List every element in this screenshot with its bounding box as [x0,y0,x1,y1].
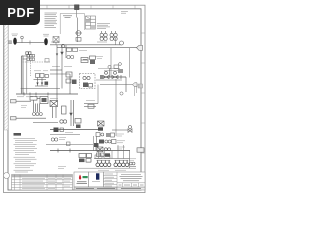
relief header pipe [100,76,126,78]
drop pipe x93.5 [93,136,95,151]
separator drum cluster [50,45,77,102]
PDF badge [0,0,40,25]
tag box on top frame [75,5,80,18]
relief instrument boxes [108,63,123,77]
fitting ticks on y94 [24,93,48,96]
dark pump cluster on y129.5 [54,128,64,133]
NOTES header [14,133,22,136]
logo box [74,172,89,187]
package unit dashed box [80,74,96,89]
drain line y144.5 [46,144,93,146]
pipe band y94 [16,93,78,95]
instrument pair mid [61,44,77,58]
mini stream table [86,16,96,29]
GAS COOLER area box [60,14,84,35]
PSV pair on column top [26,52,31,58]
underline of bubble rows [78,167,136,169]
pipe band y88 [21,88,60,90]
right vertical cluster boxes [96,121,116,157]
flare line turn-down [129,151,131,169]
equipment name labels under bubbles [58,167,126,171]
cluster left-center boxes [50,100,81,128]
doc number strip [74,187,117,190]
valve V2 tag text [43,34,49,36]
hatched battery-limit strip [4,9,8,130]
arrow label on header [51,41,107,43]
bottom labels under y94 [17,96,40,98]
riser to relief zone [97,85,99,104]
gate valve V1 (filled) [13,38,17,45]
grid reference ticks right [141,33,145,153]
inline instrument bubble on header [120,41,124,45]
instrument cluster on column [22,55,34,61]
gate valve V2 (filled) [44,38,48,45]
relief subheader y158.5 [94,158,129,160]
revision table [12,175,73,191]
pipe y129.5 [50,129,98,131]
margin punch circle [4,173,10,179]
legend text block top left [45,13,58,27]
stamp caption [92,181,100,183]
bubble under relief line [120,92,123,95]
cluster text tags right [117,134,137,161]
grid reference ticks top [25,5,135,9]
offsheet tag left A [11,100,32,103]
offsheet connector flag right [137,45,143,50]
company logo flame [79,175,81,180]
tag texts right of circles [59,138,66,140]
cooler drop pipe [75,18,82,43]
cluster risers [99,145,124,159]
relief header turn-down [125,77,127,92]
dashed signal line [22,58,50,76]
compressor train B bubbles [114,161,129,167]
company name text [77,182,88,184]
small box on dashed line [45,59,49,63]
relief line arrow to frame [100,84,133,86]
cooler E-100 cluster [53,37,59,46]
line-start tag on strip [8,41,11,44]
faint marks left-mid [21,106,27,108]
scattered tag texts center [79,51,103,59]
main header pipe [50,44,122,46]
offsheet tag left B [11,117,47,120]
cluster tag texts [34,70,48,72]
valve V1 tag text [12,34,19,36]
GAS COOLER label [63,16,72,18]
inline box on drain line [67,142,71,146]
inner frame [8,9,141,190]
pipe y122.5 [33,122,58,124]
notes text lines [14,138,38,172]
bottom-left cluster tags [51,138,58,141]
spare bubbles right [129,162,136,166]
legend text right of badge [97,24,110,29]
drop pipe from header [61,45,70,94]
area label top right [121,12,128,14]
flag on right frame [138,84,143,88]
instrument bubbles row mid-left [33,113,43,116]
arrow pipe to right mid [84,104,98,109]
flare header fittings [58,144,96,153]
tag text above box-left [50,98,95,100]
line to offsheet flag right [137,148,144,152]
blue approval stamp [96,173,99,179]
instrument boxes above title block [95,155,110,158]
HP flare KO cluster [79,154,92,163]
scrubber column V-100 [21,56,27,94]
spare riser x129.7 [129,48,131,78]
left feed pipe [17,42,45,44]
flare header pipe [50,150,130,152]
dwg reference vertical text right [135,85,137,96]
pipe y134.5 [50,134,80,136]
check valve mid [21,36,30,44]
company logo wordmark [83,176,88,178]
pump row label [65,132,73,134]
sheet background [0,0,149,198]
compressor KO drum bubbles group 1 [100,31,107,41]
stamp box [89,172,104,187]
manifold dense cluster center-left [34,74,49,87]
manifold cluster mid-left [30,97,48,113]
dark box right of drain [94,143,99,147]
compressor train A bubbles [96,161,111,167]
title block table [104,172,146,187]
relief valves row [103,71,121,79]
outer border [4,5,145,192]
tiny text labels band y66 [52,67,120,71]
package internals [83,76,93,87]
compressor KO drum bubbles group 2 [110,31,117,41]
relief bypass line [96,79,122,81]
gray blob left of relief [100,75,103,79]
right side signal line vertical [111,48,116,136]
exchanger cluster mid right [81,56,96,64]
